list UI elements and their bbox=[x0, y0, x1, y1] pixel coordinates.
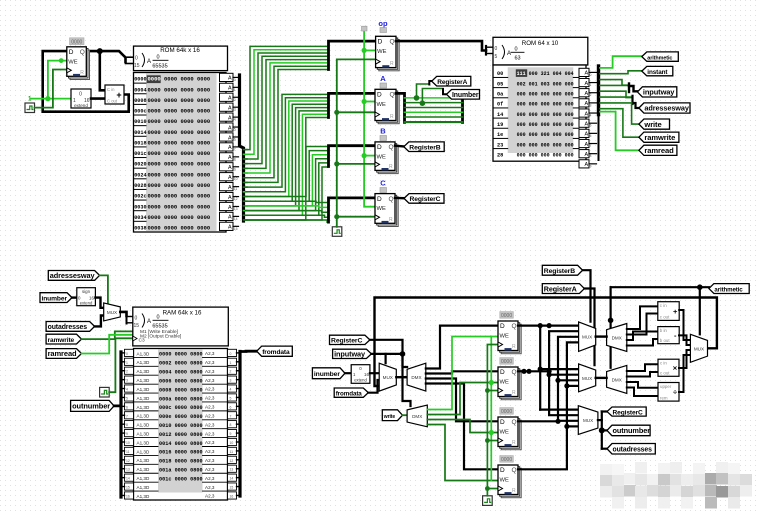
svg-text:0: 0 bbox=[156, 55, 159, 61]
svg-text:A1,3D: A1,3D bbox=[137, 351, 150, 356]
svg-text:adressesway: adressesway bbox=[50, 271, 96, 280]
wire resplit green bus bbox=[405, 97, 463, 99]
RAM U3 row 13 bbox=[134, 463, 158, 465]
svg-text:Q: Q bbox=[389, 144, 394, 151]
svg-text:A1,3D: A1,3D bbox=[137, 396, 150, 401]
svg-text:adressesway: adressesway bbox=[644, 104, 689, 113]
svg-text:R: R bbox=[512, 390, 516, 396]
svg-text:WE: WE bbox=[500, 380, 509, 386]
svg-text:0000 0000 0000 0000: 0000 0000 0000 0000 bbox=[148, 193, 211, 200]
svg-text:0004: 0004 bbox=[134, 87, 146, 93]
svg-text:0: 0 bbox=[234, 78, 236, 82]
splitter B input bundle bbox=[329, 146, 376, 167]
svg-text:ROM 64k x 16: ROM 64k x 16 bbox=[160, 47, 200, 54]
svg-text:sign: sign bbox=[82, 289, 91, 294]
wire DMXB to div in1 bbox=[627, 382, 658, 388]
tunnel RegisterC select bbox=[330, 335, 370, 344]
clock CLK1 bbox=[25, 103, 35, 113]
svg-text:001c: 001c bbox=[134, 151, 146, 157]
wire green fan to A splitter bbox=[246, 94, 327, 187]
svg-text:0000 0000 0000: 0000 0000 0000 bbox=[148, 76, 211, 83]
wire RF4 output bus bbox=[518, 342, 579, 469]
svg-text:MUX: MUX bbox=[383, 375, 393, 380]
wire RAM left stub bbox=[121, 432, 125, 434]
svg-text:A1,3D: A1,3D bbox=[137, 476, 150, 481]
svg-text:A1,3D: A1,3D bbox=[137, 369, 150, 374]
svg-text:rem: rem bbox=[660, 395, 668, 400]
svg-text:000 000 000 000 000: 000 000 000 000 000 bbox=[517, 102, 574, 108]
wire RAM right data bus bbox=[238, 352, 241, 497]
svg-text:0010 0000 0800: 0010 0000 0800 bbox=[159, 423, 203, 429]
svg-text:A2,3: A2,3 bbox=[205, 485, 215, 490]
tunnel inputway bbox=[637, 87, 676, 97]
wire ctrl instant bbox=[600, 71, 642, 74]
svg-text:ramwrite: ramwrite bbox=[644, 133, 675, 142]
svg-text:inumber: inumber bbox=[42, 295, 68, 302]
svg-text:0024: 0024 bbox=[134, 172, 146, 178]
svg-text:000c 0000 0800: 000c 0000 0800 bbox=[159, 405, 203, 411]
node outnumber junction bbox=[599, 427, 605, 433]
wire RegisterB down to MUX1 select bbox=[583, 270, 591, 322]
label WE source box bbox=[362, 26, 368, 31]
wire inumber to extender2 bbox=[345, 372, 351, 374]
svg-text:4: 4 bbox=[230, 388, 232, 392]
ROM U1 row 0008 bbox=[134, 93, 146, 95]
svg-text:A: A bbox=[585, 132, 589, 138]
ROM U1 row 0028 bbox=[134, 178, 146, 180]
wire RAM right stub bbox=[237, 423, 241, 425]
RAM U3 row 15 bbox=[134, 481, 158, 483]
svg-text:R: R bbox=[512, 344, 516, 350]
wire RF1 output bus bbox=[518, 325, 579, 327]
svg-text:RAM 64k x 16: RAM 64k x 16 bbox=[163, 310, 202, 317]
svg-text:A2,3: A2,3 bbox=[205, 378, 215, 383]
svg-text:0: 0 bbox=[135, 316, 138, 322]
svg-text:001a 0000 0800: 001a 0000 0800 bbox=[159, 468, 203, 474]
tunnel instant bbox=[642, 66, 673, 75]
svg-text:05: 05 bbox=[497, 81, 503, 87]
wire RF3 output bus bbox=[518, 337, 579, 422]
svg-text:A: A bbox=[585, 71, 589, 77]
svg-text:1e: 1e bbox=[497, 132, 503, 138]
wire C Q to tunnel bbox=[395, 197, 404, 200]
svg-text:3: 3 bbox=[234, 108, 236, 112]
svg-text:b out: b out bbox=[660, 338, 671, 343]
svg-text:63: 63 bbox=[514, 56, 520, 62]
wire inumber to extender bbox=[72, 296, 77, 298]
svg-text:+: + bbox=[116, 90, 121, 100]
svg-text:outadresses: outadresses bbox=[613, 446, 653, 453]
wire RAM left stub bbox=[121, 494, 125, 496]
wire DMX2 write out 3 bbox=[427, 420, 498, 433]
svg-text:6: 6 bbox=[590, 134, 592, 138]
node WE regfile junctions bbox=[489, 380, 494, 385]
wire RAM left stub bbox=[121, 396, 125, 398]
svg-text:D: D bbox=[69, 49, 74, 56]
wire outadresses to mux bbox=[95, 316, 104, 327]
svg-text:A: A bbox=[585, 81, 589, 87]
wire mul out to MUX3 bbox=[679, 350, 690, 368]
wire ramread to M2 bbox=[82, 335, 133, 354]
tunnel RegisterB top bbox=[404, 142, 444, 152]
svg-text:RegisterB: RegisterB bbox=[409, 144, 440, 151]
svg-text:5: 5 bbox=[126, 396, 128, 400]
wire RAM right stub bbox=[237, 379, 241, 381]
wire green fan to C splitter bbox=[246, 201, 327, 202]
wire DMXB to mul in1 bbox=[627, 364, 658, 371]
node WE junction bbox=[362, 48, 367, 53]
svg-text:Q: Q bbox=[512, 323, 517, 330]
svg-text:9: 9 bbox=[590, 164, 592, 168]
ROM U2 data box bbox=[493, 65, 586, 161]
wire RAM right stub bbox=[237, 361, 241, 363]
svg-text:8: 8 bbox=[126, 423, 128, 427]
svg-text:3: 3 bbox=[126, 379, 128, 383]
splitter PC to ROM A pins bbox=[126, 56, 133, 58]
watermark mosaic bbox=[600, 464, 612, 476]
svg-text:A: A bbox=[228, 86, 232, 92]
svg-text:13: 13 bbox=[230, 468, 234, 472]
svg-text:×: × bbox=[673, 364, 678, 373]
svg-text:0000 0000 0000 0000: 0000 0000 0000 0000 bbox=[148, 214, 211, 221]
wire tap to RegisterA tunnel bbox=[417, 84, 430, 98]
wire clock to PC bbox=[35, 70, 67, 108]
wire RAM right stub bbox=[237, 370, 241, 372]
demux DMXA bbox=[607, 324, 627, 352]
svg-text:A2,3: A2,3 bbox=[205, 405, 215, 410]
svg-text:A: A bbox=[228, 195, 232, 201]
svg-text:A: A bbox=[228, 225, 232, 231]
svg-text:0002 0000 0800: 0002 0000 0800 bbox=[159, 361, 203, 367]
svg-text:65535: 65535 bbox=[152, 64, 167, 70]
svg-text:A1,3D: A1,3D bbox=[137, 387, 150, 392]
ROM U1 row 0024 bbox=[134, 167, 146, 169]
svg-text:ROM 64 x 10: ROM 64 x 10 bbox=[522, 40, 559, 47]
wire ALU result writeback bus bbox=[375, 298, 717, 387]
svg-text:A1,3D: A1,3D bbox=[137, 494, 150, 499]
svg-text:A1,3D: A1,3D bbox=[137, 360, 150, 365]
svg-text:extend: extend bbox=[74, 103, 88, 108]
svg-text:A: A bbox=[228, 125, 232, 131]
tunnel fromdata out bbox=[257, 346, 293, 356]
svg-text:5: 5 bbox=[495, 54, 498, 60]
svg-text:RegisterC: RegisterC bbox=[410, 196, 441, 203]
wire RAM left stub bbox=[121, 352, 125, 354]
svg-text:6: 6 bbox=[126, 405, 128, 409]
svg-text:0: 0 bbox=[230, 352, 232, 356]
svg-text:0014 0000 0800: 0014 0000 0800 bbox=[159, 441, 203, 447]
svg-text:extend: extend bbox=[354, 378, 367, 383]
node PC output junction bbox=[97, 48, 103, 54]
wire MUX1 to DMXA bbox=[596, 335, 607, 337]
svg-text:A1,3D: A1,3D bbox=[137, 423, 150, 428]
RAM U3 row 9 bbox=[134, 428, 158, 430]
svg-text:0014: 0014 bbox=[134, 130, 146, 136]
svg-text:c out: c out bbox=[660, 371, 670, 376]
wire counter feedback loop bbox=[43, 51, 129, 112]
splitter ROM2 output bus bbox=[597, 66, 600, 115]
svg-text:RegisterB: RegisterB bbox=[544, 268, 575, 275]
svg-text:A2,3: A2,3 bbox=[205, 476, 215, 481]
tunnel write enable bbox=[382, 410, 402, 421]
svg-text:15: 15 bbox=[234, 227, 238, 231]
svg-text:65535: 65535 bbox=[152, 324, 167, 330]
svg-text:RegisterC: RegisterC bbox=[331, 338, 362, 345]
svg-text:0000: 0000 bbox=[501, 457, 512, 463]
register op bbox=[376, 36, 400, 71]
wire WE stub bbox=[364, 49, 375, 51]
wire DMX1 out to D4 bbox=[426, 384, 498, 470]
svg-text:inputway: inputway bbox=[643, 88, 675, 97]
svg-text:14: 14 bbox=[234, 217, 238, 221]
node WE junction bbox=[362, 153, 367, 158]
wire RAM right stub bbox=[237, 468, 241, 470]
label op value box bbox=[380, 28, 387, 33]
tunnel arithmetic bbox=[642, 52, 679, 61]
ROM U1 row 001c bbox=[134, 146, 146, 148]
svg-text:A: A bbox=[228, 175, 232, 181]
wire inputway selects bbox=[371, 353, 402, 355]
wire arithmetic to MUX3 select bbox=[699, 287, 701, 334]
svg-text:write: write bbox=[383, 414, 396, 420]
wire RAM right stub bbox=[237, 494, 241, 496]
label regfile value 4 bbox=[500, 456, 514, 463]
wire DMXA to sub in1 bbox=[627, 332, 658, 341]
node WE junction bbox=[362, 99, 367, 104]
mux MUX3 result select bbox=[690, 334, 707, 362]
wire RAM left stub bbox=[121, 423, 125, 425]
svg-text:0000: 0000 bbox=[134, 77, 146, 83]
ROM U1 row 000c bbox=[134, 103, 146, 105]
wire extender2 to MUX bbox=[370, 372, 379, 374]
mux write data MUX bbox=[379, 363, 396, 391]
svg-text:9: 9 bbox=[234, 167, 236, 171]
label C value box bbox=[380, 188, 387, 193]
RAM U3 row 16 bbox=[134, 490, 158, 492]
wire inputway to DMX1 select bbox=[403, 354, 408, 367]
svg-text:MUX: MUX bbox=[582, 376, 592, 381]
wire extender to mux bbox=[95, 298, 103, 308]
svg-text:16: 16 bbox=[230, 494, 234, 498]
svg-text:10: 10 bbox=[126, 441, 130, 445]
svg-text:A: A bbox=[228, 115, 232, 121]
svg-text:A: A bbox=[228, 155, 232, 161]
wire MUX2 to DMXB bbox=[596, 377, 607, 379]
svg-text:A2,3: A2,3 bbox=[205, 440, 215, 445]
svg-text:8: 8 bbox=[230, 423, 232, 427]
wire outnumber to bus bbox=[114, 352, 121, 406]
svg-text:A: A bbox=[585, 142, 589, 148]
svg-text:+: + bbox=[673, 307, 678, 316]
svg-text:6: 6 bbox=[234, 137, 236, 141]
svg-text:A2,3: A2,3 bbox=[205, 351, 215, 356]
svg-text:12: 12 bbox=[234, 197, 238, 201]
tunnel outadresses source bbox=[46, 322, 95, 332]
svg-text:0000 0000 0000 0000: 0000 0000 0000 0000 bbox=[148, 86, 211, 93]
svg-text:000a 0000 0800: 000a 0000 0800 bbox=[159, 396, 203, 402]
splitter RegisterA resplit right spine bbox=[461, 95, 464, 122]
ROM U1 output pin boxes bbox=[220, 73, 234, 81]
svg-text:000e 0000 0800: 000e 0000 0800 bbox=[159, 414, 203, 420]
svg-text:D: D bbox=[500, 467, 505, 474]
wire RAM left stub bbox=[121, 361, 125, 363]
svg-text:1: 1 bbox=[126, 361, 128, 365]
wire RAM left stub bbox=[121, 477, 125, 479]
svg-text:R: R bbox=[389, 217, 393, 223]
mux MUX2 operand B bbox=[579, 364, 596, 392]
splitter inputway bundle bbox=[628, 84, 630, 93]
svg-text:11: 11 bbox=[234, 187, 238, 191]
label regfile value 1 bbox=[500, 312, 514, 319]
svg-text:C in: C in bbox=[107, 87, 115, 92]
svg-text:0: 0 bbox=[79, 92, 82, 98]
wire clock vertical dark green bbox=[337, 59, 375, 226]
wire arithmetic control line bbox=[611, 286, 709, 288]
svg-text:D: D bbox=[377, 196, 382, 203]
wire DMX1 out to D1 bbox=[426, 326, 498, 369]
svg-text:14: 14 bbox=[230, 477, 234, 481]
svg-text:000 321 004 004: 000 321 004 004 bbox=[517, 71, 574, 77]
svg-text:0000 0000 0000 0000: 0000 0000 0000 0000 bbox=[148, 97, 211, 104]
svg-text:1: 1 bbox=[590, 83, 592, 87]
svg-text:RegisterC: RegisterC bbox=[613, 409, 644, 416]
node clock junction regfile bbox=[485, 486, 490, 491]
svg-text:op: op bbox=[378, 19, 388, 28]
svg-text:Q: Q bbox=[390, 39, 395, 46]
node arithmetic MUX3 branch bbox=[697, 284, 703, 290]
wire RAM right stub bbox=[237, 477, 241, 479]
wire PC Q to ROM address bbox=[86, 51, 126, 62]
svg-text:0: 0 bbox=[156, 315, 159, 321]
svg-text:MUX: MUX bbox=[107, 310, 117, 315]
svg-text:D: D bbox=[377, 92, 382, 99]
svg-text:1: 1 bbox=[234, 88, 236, 92]
svg-text:0000: 0000 bbox=[71, 39, 82, 45]
wire extender to adder input B bbox=[91, 97, 105, 100]
svg-text:15: 15 bbox=[230, 486, 234, 490]
svg-text:A1,3D: A1,3D bbox=[137, 449, 150, 454]
wire RegisterA down to MUX2 select bbox=[584, 289, 594, 366]
svg-text:5: 5 bbox=[234, 128, 236, 132]
wire RAM left stub bbox=[121, 405, 125, 407]
ROM U2 64 x 10 header bbox=[493, 37, 588, 65]
svg-text:A: A bbox=[585, 91, 589, 97]
wire RAM right stub bbox=[237, 432, 241, 434]
wire ctrl adressesway bits bbox=[600, 91, 633, 97]
wire RAM left stub bbox=[121, 441, 125, 443]
wire RAM right stub bbox=[237, 405, 241, 407]
wire green fan to op splitter bbox=[246, 46, 327, 149]
wire op Q to ROM2 address bbox=[396, 41, 486, 50]
svg-text:7: 7 bbox=[126, 414, 128, 418]
svg-text:A: A bbox=[228, 145, 232, 151]
RAM U3 row 10 bbox=[134, 437, 158, 439]
svg-text:0000 0000 0000 0000: 0000 0000 0000 0000 bbox=[148, 182, 211, 189]
wire WE enable vertical bright green bbox=[364, 31, 375, 207]
extender EXT1 bbox=[71, 89, 91, 108]
mux MUX1 operand A bbox=[579, 322, 596, 352]
svg-text:10: 10 bbox=[234, 177, 238, 181]
wire ctrl write bbox=[600, 103, 639, 124]
wire RAM left stub bbox=[121, 370, 125, 372]
svg-text:D: D bbox=[500, 369, 505, 376]
RAM U3 row 1 bbox=[134, 356, 158, 358]
wire DMX2 write out 1 bbox=[427, 337, 498, 410]
RAM U3 row 6 bbox=[134, 401, 158, 403]
svg-text:A1,3D: A1,3D bbox=[137, 485, 150, 490]
wire clock stub regfile bbox=[487, 440, 498, 442]
wire RAM right stub bbox=[237, 450, 241, 452]
svg-text:c in: c in bbox=[660, 303, 667, 308]
RAM U3 row 8 bbox=[134, 419, 158, 421]
RAM U3 row 12 bbox=[134, 454, 158, 456]
svg-text:000c: 000c bbox=[134, 109, 146, 115]
clock CLK3 bbox=[100, 387, 110, 397]
svg-text:0008: 0008 bbox=[134, 98, 146, 104]
wire RAM right stub bbox=[237, 352, 241, 354]
tunnel outnumber source bbox=[71, 400, 115, 411]
svg-text:extend: extend bbox=[80, 301, 93, 306]
svg-text:5: 5 bbox=[590, 124, 592, 128]
ROM U1 row 0038 bbox=[134, 220, 146, 222]
svg-text:inputway: inputway bbox=[334, 350, 366, 359]
svg-text:arithmetic: arithmetic bbox=[714, 286, 743, 293]
svg-text:0030: 0030 bbox=[134, 204, 146, 210]
node WE junction bbox=[45, 96, 50, 101]
node clock junction regfile bbox=[485, 388, 490, 393]
wire RAM to fromdata bbox=[240, 350, 257, 353]
svg-text:A2,3: A2,3 bbox=[205, 413, 215, 418]
wire clock stub regfile bbox=[487, 488, 498, 490]
splitter A input bundle bbox=[329, 93, 376, 117]
tunnel ramread source bbox=[46, 349, 81, 359]
svg-text:outnumber: outnumber bbox=[613, 426, 651, 435]
svg-text:15: 15 bbox=[134, 323, 140, 329]
svg-text:A: A bbox=[147, 59, 151, 65]
svg-text:WE: WE bbox=[377, 102, 386, 108]
ROM U1 row 0030 bbox=[134, 199, 146, 201]
wire DMXA to sub in2 bbox=[627, 339, 658, 346]
wire RF2 output bus bbox=[518, 331, 579, 371]
svg-text:WE: WE bbox=[68, 59, 77, 65]
mux RAM address MUX bbox=[104, 303, 121, 321]
wire B Q to tunnel bbox=[395, 144, 404, 147]
wire clock to C3 bbox=[109, 338, 133, 392]
svg-text:D: D bbox=[500, 323, 505, 330]
wire WE stub bbox=[364, 101, 375, 103]
wire write enable vertical bbox=[490, 337, 492, 481]
svg-text:WE: WE bbox=[377, 154, 386, 160]
wire junction down to adder input A bbox=[100, 51, 105, 90]
svg-text:0000 0000 0000 0000: 0000 0000 0000 0000 bbox=[148, 171, 211, 178]
wire clock stub bbox=[337, 111, 375, 113]
svg-text:ramread: ramread bbox=[644, 146, 674, 155]
RAM U3 row 7 bbox=[134, 410, 158, 412]
label A value box bbox=[380, 83, 387, 88]
wire green fan to B splitter bbox=[246, 147, 327, 197]
svg-text:M2 [Output Enable]: M2 [Output Enable] bbox=[140, 333, 181, 339]
svg-text:R: R bbox=[80, 70, 84, 76]
svg-text:Q: Q bbox=[389, 196, 394, 203]
svg-text:2: 2 bbox=[590, 93, 592, 97]
svg-text:11: 11 bbox=[126, 450, 130, 454]
svg-text:002 001 003 000 000: 002 001 003 000 000 bbox=[517, 81, 574, 87]
wire div out to MUX3 bbox=[679, 355, 690, 392]
svg-text:A: A bbox=[228, 135, 232, 141]
wire DMX2 write out 2 bbox=[427, 383, 498, 415]
svg-text:0: 0 bbox=[135, 56, 138, 62]
svg-text:upper: upper bbox=[660, 384, 672, 389]
